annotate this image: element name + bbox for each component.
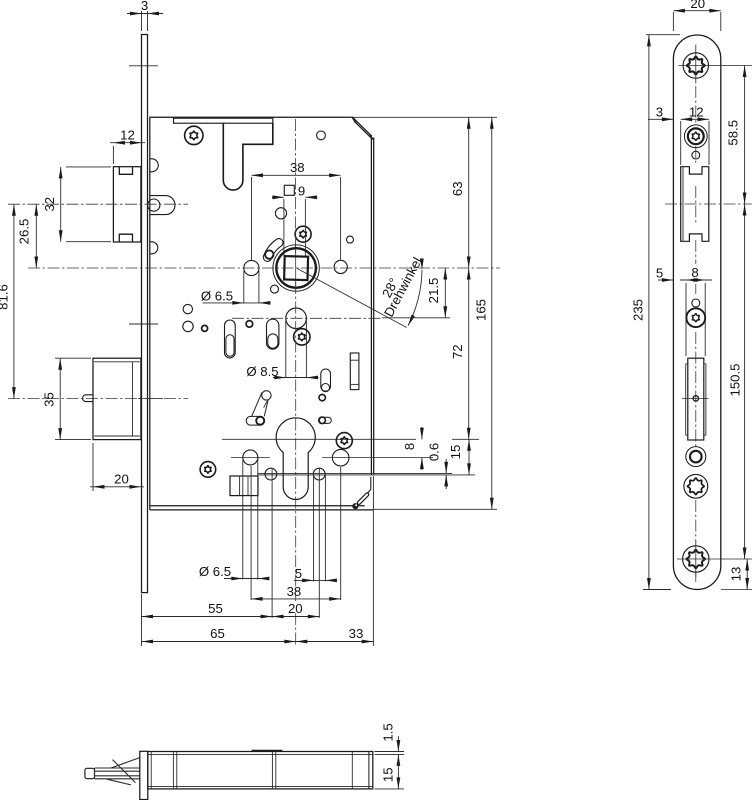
svg-text:1.5: 1.5 xyxy=(381,723,396,741)
label 28 deg Drehwinkel xyxy=(379,255,425,320)
top countersunk screw (8-point) xyxy=(679,45,717,84)
svg-text:9: 9 xyxy=(298,183,305,198)
mid torx screw on plate xyxy=(686,308,705,327)
right slot with holes xyxy=(319,369,331,401)
dimension dia 6.5 lower xyxy=(199,458,269,580)
small thick hole at slot end xyxy=(265,250,273,258)
dimension 33 xyxy=(296,476,374,646)
dimensions 5 and 8 (deadbolt cutout) xyxy=(656,265,712,356)
mounting tab (T-shaped) at case top xyxy=(174,118,273,190)
bottom view latch head xyxy=(85,758,140,785)
svg-text:20: 20 xyxy=(114,471,129,486)
dimension 55 xyxy=(142,468,273,618)
dimension 20 (deadbolt throw) xyxy=(90,443,144,491)
svg-text:20: 20 xyxy=(690,0,705,11)
svg-text:3: 3 xyxy=(656,105,663,120)
svg-text:58.5: 58.5 xyxy=(726,120,741,146)
dimension 150.5 xyxy=(728,204,747,559)
dimension 38 bottom xyxy=(251,466,341,601)
latch cutout xyxy=(681,167,709,242)
vertical centerline above follower xyxy=(295,119,297,254)
bottom view faceplate bar xyxy=(140,751,148,799)
dimension 65 (backset) xyxy=(142,594,296,646)
screw above follower (torx) xyxy=(295,226,311,242)
dimension square-9 (follower square) xyxy=(272,183,318,256)
hole pair left (lower) xyxy=(183,321,193,331)
svg-text:38: 38 xyxy=(290,160,305,175)
svg-text:8: 8 xyxy=(691,265,698,280)
bottom view cylinder bump xyxy=(252,749,283,751)
dimension 0.6 xyxy=(427,443,449,489)
hole left of cylinder (6.5) xyxy=(231,450,270,465)
ring screw hole xyxy=(686,447,706,467)
svg-text:3: 3 xyxy=(141,0,148,13)
svg-text:0.6: 0.6 xyxy=(427,443,442,461)
svg-text:Ø 6.5: Ø 6.5 xyxy=(201,289,233,304)
cylinder horizontal centerline xyxy=(222,438,416,440)
dimension 20 bottom xyxy=(272,468,319,618)
change lever xyxy=(246,391,271,425)
guide slot left (inner) xyxy=(226,335,234,357)
small hole above mid screw xyxy=(692,299,700,307)
latch head bottom notch xyxy=(119,234,132,241)
bottom view divider pair 2 xyxy=(272,752,275,789)
screw axis extension xyxy=(717,65,752,67)
dimension 12 (latch width) xyxy=(110,128,145,165)
svg-text:Ø 8.5: Ø 8.5 xyxy=(246,364,278,379)
svg-text:8: 8 xyxy=(402,443,417,450)
hole axis centerline xyxy=(232,317,382,319)
deadbolt axis solid segment at case wall xyxy=(138,398,163,400)
deadbolt pin knob xyxy=(83,395,93,402)
svg-text:72: 72 xyxy=(450,344,465,359)
screw right of cylinder (torx) xyxy=(336,433,352,449)
svg-text:65: 65 xyxy=(210,626,225,641)
svg-text:33: 33 xyxy=(349,626,364,641)
bottom plate double line xyxy=(258,473,475,475)
dimension 165 (case height) xyxy=(374,117,497,509)
dimension 5 xyxy=(294,475,337,583)
bottom view: case box xyxy=(148,752,373,789)
faceplate section tick upper xyxy=(129,65,158,67)
flanking hole right of cylinder xyxy=(313,468,325,480)
dimension 13 xyxy=(729,559,750,590)
dimension 21.5 (follower axis to hole) xyxy=(382,268,450,318)
svg-text:38: 38 xyxy=(287,584,302,599)
svg-text:63: 63 xyxy=(450,181,465,196)
hole below follower (8.5) xyxy=(286,308,307,329)
dimension 15 right xyxy=(448,439,471,475)
deadbolt axis centerline xyxy=(8,398,188,400)
bottom view dimension 15 xyxy=(375,754,405,789)
svg-text:21.5: 21.5 xyxy=(426,278,441,304)
dimension 3 (faceplate thickness) xyxy=(127,0,163,31)
plate bottom extension xyxy=(721,589,752,591)
rotation-angle arc xyxy=(406,258,424,326)
faceplate (Stulp) side view bar xyxy=(142,35,148,593)
screw below follower (torx) xyxy=(294,329,310,345)
svg-text:20: 20 xyxy=(288,601,303,616)
dimension 8 right xyxy=(402,427,424,470)
follower (square spindle hub) xyxy=(273,245,319,291)
euro profile cylinder hole xyxy=(276,418,315,500)
svg-text:15: 15 xyxy=(381,767,396,782)
cylinder axis vertical centerline xyxy=(295,282,297,646)
svg-text:12: 12 xyxy=(689,105,704,120)
bottom view case wall inner line xyxy=(150,752,152,789)
hole left of follower (38 ref) xyxy=(244,260,259,275)
curved slot (banana) upper-left of follower xyxy=(263,239,283,262)
dimension 58.5 xyxy=(726,66,747,205)
upper torx screw on plate xyxy=(684,125,707,148)
svg-text:235: 235 xyxy=(631,299,646,321)
faceplate front view outline xyxy=(673,35,720,590)
small horizontal slot xyxy=(319,417,331,424)
dimension dia 8.5 xyxy=(246,319,318,379)
small thick hole left xyxy=(202,325,208,331)
dimension 72 (follower axis to cylinder axis) xyxy=(450,268,471,439)
small thick hole mid xyxy=(246,321,253,328)
dimension 3 (cutout offset) xyxy=(648,105,673,122)
case wall tab upper xyxy=(150,159,158,172)
bottom 8-point screw xyxy=(677,541,715,577)
dimension 20 (faceplate width) xyxy=(673,0,720,31)
stop block xyxy=(230,476,258,496)
svg-text:55: 55 xyxy=(208,601,223,616)
svg-text:150.5: 150.5 xyxy=(728,363,743,396)
lock case outline xyxy=(150,117,374,510)
latch head (front, protruding) xyxy=(113,167,140,242)
svg-text:12: 12 xyxy=(120,128,135,143)
small hole right of follower top xyxy=(347,236,354,243)
bottom screw axis extension xyxy=(715,558,752,560)
deadbolt head (front, thrown) xyxy=(93,358,141,439)
guide slot mid (inner) xyxy=(268,334,278,348)
dimension 12 (latch cutout width) xyxy=(681,105,709,166)
latch head top notch xyxy=(119,167,132,174)
rotation-angle leader line xyxy=(297,268,407,327)
faceplate section tick lower xyxy=(129,323,158,325)
dimension 38 (hole spacing top) xyxy=(252,160,341,260)
svg-text:Ø 6.5: Ø 6.5 xyxy=(199,564,231,579)
small hole top middle xyxy=(317,131,326,140)
hole above follower-left xyxy=(275,208,286,219)
dimension 63 (case top to follower axis) xyxy=(353,117,497,268)
dimension 32 (latch height) xyxy=(42,167,111,242)
case wall tab lower xyxy=(150,242,158,254)
hole right of follower (38 ref) xyxy=(334,260,347,273)
faceplate vertical centerline xyxy=(695,86,697,582)
small hole below-left of follower xyxy=(271,285,279,293)
svg-text:26.5: 26.5 xyxy=(17,219,32,245)
dimension 81.6 (latch axis to deadbolt axis) xyxy=(0,204,16,398)
latch tail pin inside case xyxy=(148,196,175,215)
svg-text:165: 165 xyxy=(474,299,489,321)
dimension dia 6.5 upper label xyxy=(201,271,271,305)
small hole below screw xyxy=(692,151,700,159)
deadbolt cutout xyxy=(682,358,709,440)
lower 8-point screw xyxy=(684,474,708,498)
dimension 35 (deadbolt height) xyxy=(42,358,92,439)
dimension 235 (faceplate length) xyxy=(631,35,681,590)
svg-text:5: 5 xyxy=(656,266,663,281)
bottom view dimension 1.5 xyxy=(375,723,405,766)
svg-text:13: 13 xyxy=(729,567,744,582)
flanking hole left of cylinder xyxy=(265,468,277,480)
hole pair left (upper) xyxy=(183,304,192,313)
svg-text:35: 35 xyxy=(42,392,57,407)
narrow rectangular slot right xyxy=(350,353,359,390)
follower axis centerline xyxy=(28,267,500,269)
svg-text:5: 5 xyxy=(295,566,302,581)
latch axis on plate xyxy=(665,203,752,205)
guide slot mid (outer) xyxy=(267,319,279,349)
svg-text:15: 15 xyxy=(448,445,463,460)
svg-text:81.6: 81.6 xyxy=(0,284,11,310)
screw top-left (torx) xyxy=(185,126,203,144)
dimension 26.5 (latch axis to follower axis) xyxy=(17,204,39,268)
spring clip at case lower right corner xyxy=(352,477,371,510)
latch axis centerline xyxy=(8,203,188,205)
hole right of cylinder xyxy=(322,449,433,466)
guide slot left (outer) xyxy=(225,320,236,358)
bottom view divider 3 xyxy=(351,752,353,789)
screw lower left (torx) xyxy=(200,462,216,478)
svg-text:32: 32 xyxy=(42,197,57,212)
bottom view divider pair 1 xyxy=(173,752,176,789)
